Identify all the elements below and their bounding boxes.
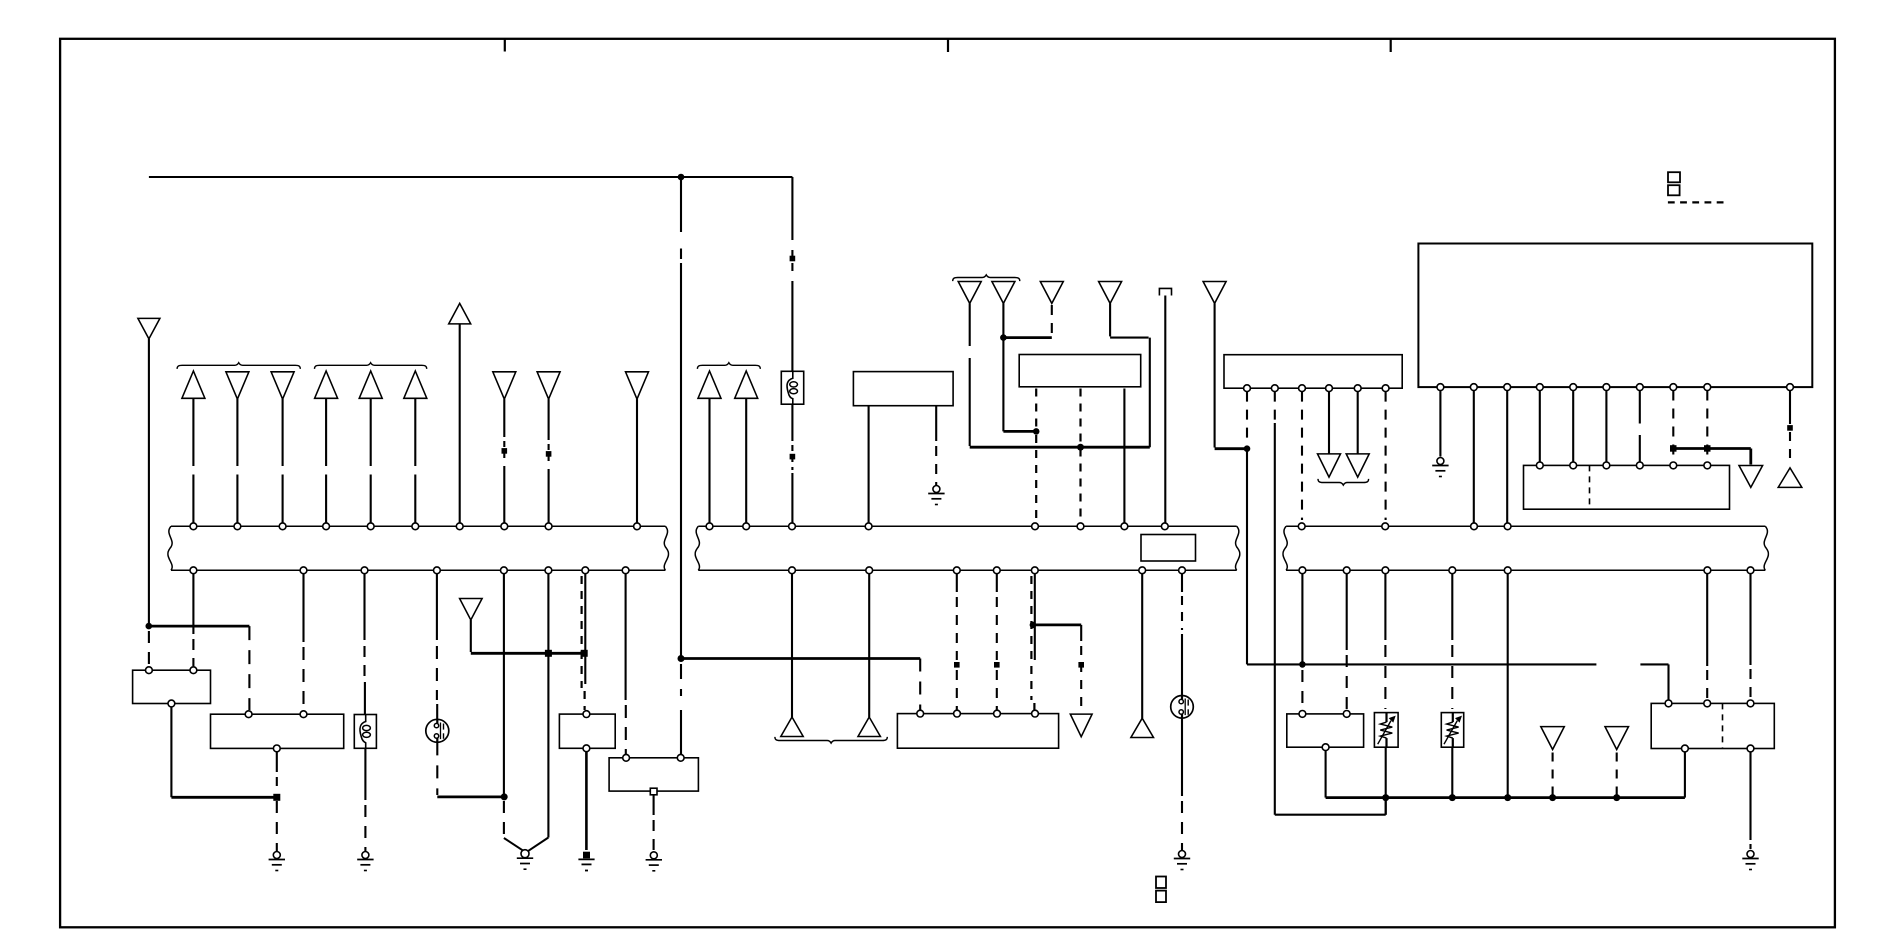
- pin bus B bottom 6: [1139, 567, 1146, 574]
- wire M2 pin1 down: [1246, 449, 1248, 665]
- wire bus A col x504 down: [503, 574, 505, 795]
- pin K1 top 1: [146, 667, 153, 674]
- wire bus C to R1 a: [1384, 574, 1386, 640]
- wire K4 down dash: [653, 820, 655, 852]
- junction N5: [1030, 622, 1037, 629]
- pin bus C top 1: [1298, 523, 1305, 530]
- lamp L2: [1171, 696, 1194, 719]
- wire net N6: [1673, 447, 1751, 450]
- wire U1 p4 down: [1539, 391, 1541, 463]
- wire K6 down dash: [1749, 844, 1751, 849]
- wire C4 corner: [1110, 337, 1149, 339]
- wire bus A to lamp dash: [436, 646, 438, 700]
- pin U2 1: [1536, 462, 1543, 469]
- connector A6 triangle: [404, 371, 427, 398]
- wire drop x792 upper: [791, 177, 793, 240]
- pin U1 6: [1603, 384, 1610, 391]
- brace group 5: [1318, 479, 1369, 485]
- pin K3 top: [583, 711, 590, 718]
- wire bus C to K6 p2 dash: [1706, 670, 1708, 700]
- divider U2 dashed: [1589, 465, 1591, 509]
- connector A4 triangle: [315, 371, 338, 398]
- wire bus C to R2 a: [1451, 574, 1453, 640]
- bus B bottom edge: [698, 569, 1236, 571]
- wire bus A to lamp solid: [436, 574, 438, 640]
- bus A right break: [664, 526, 668, 570]
- wire K3 down: [585, 752, 588, 850]
- brace group 2: [315, 363, 427, 369]
- wire bus C to K5 p2 a: [1346, 574, 1348, 650]
- bus B top edge: [698, 525, 1236, 527]
- wire col x581 dashed: [580, 576, 582, 688]
- ground G7: [1174, 851, 1190, 870]
- wire C5 down: [1214, 303, 1216, 447]
- connector A1 triangle: [182, 371, 205, 398]
- wire col x193 lower: [192, 475, 194, 523]
- wire C2-C3 link: [1003, 336, 1051, 339]
- brace group 6: [775, 737, 887, 743]
- wire branch drop dashed: [248, 626, 250, 710]
- splice S4: [790, 454, 796, 460]
- junction M2 pin1 net: [1033, 428, 1040, 435]
- pin bus A bottom 2: [300, 567, 307, 574]
- wire x504 diagonal: [504, 838, 524, 851]
- connector A2 triangle: [226, 372, 249, 399]
- marker square bottom 1: [1156, 877, 1166, 889]
- pin M2 4: [1326, 385, 1333, 392]
- wire M1 pin2 dash: [935, 446, 937, 485]
- marker square top 1: [1668, 172, 1680, 182]
- fold tick 3: [1390, 39, 1392, 52]
- pin bus A bottom 5: [501, 567, 508, 574]
- wire col x504 a: [503, 399, 505, 437]
- pin U1 1: [1437, 384, 1444, 391]
- connector D3 triangle: [1070, 714, 1092, 737]
- junction N7 a: [1382, 794, 1389, 801]
- wire net N2 a: [1247, 663, 1596, 665]
- wire bus C to R2 dash: [1451, 645, 1453, 709]
- pin bus B top 8: [1161, 523, 1168, 530]
- wire bus C to K6 p3 dash: [1749, 669, 1751, 700]
- wire U1 p3 down: [1506, 391, 1508, 523]
- pin U1 8: [1670, 384, 1677, 391]
- wire K2 down a: [276, 752, 278, 772]
- thermistor R1: [1374, 713, 1398, 748]
- junction U1 p8: [1670, 445, 1677, 452]
- pin M2 6: [1382, 385, 1389, 392]
- junction N7 d: [1549, 794, 1556, 801]
- wire C1 down b: [969, 358, 971, 446]
- wire bus B to D4: [1141, 574, 1143, 718]
- pin bus B top 1: [706, 523, 713, 530]
- pin bus C bottom 2: [1343, 567, 1350, 574]
- wire bus A to K1 solid: [192, 574, 194, 634]
- pin K2 top 1: [245, 711, 252, 718]
- pin M2 1: [1244, 385, 1251, 392]
- wire E4 drop dash: [1616, 753, 1618, 796]
- bus A bottom edge: [171, 569, 665, 571]
- wire bus B to M3p3 dash2: [996, 670, 998, 710]
- ground G2: [357, 852, 373, 871]
- wire M2 pin5 down: [1357, 392, 1359, 454]
- pin K6 top 3: [1747, 700, 1754, 707]
- wire F1 down b: [791, 473, 793, 523]
- ground G1: [269, 852, 285, 871]
- connector C8 triangle: [1346, 454, 1369, 477]
- wire drop x681 lower dashed: [680, 664, 682, 696]
- pin K4 bottom square: [650, 788, 657, 795]
- wire U1 p7 down b: [1639, 435, 1641, 462]
- wire col x415 upper: [414, 399, 416, 466]
- wire thick net N4: [681, 657, 920, 660]
- wire col x548 a: [548, 399, 550, 440]
- wire col x1031 dashed: [1030, 576, 1032, 700]
- pin U1 5: [1570, 384, 1577, 391]
- pin bus C bottom 3: [1382, 567, 1389, 574]
- ground G3: [517, 850, 533, 870]
- wire col x709: [708, 399, 710, 523]
- wire bus B to lamp2 a: [1181, 574, 1183, 592]
- pin bus C top 4: [1504, 523, 1511, 530]
- pin bus B bottom 1: [789, 567, 796, 574]
- box K5: [1287, 714, 1364, 747]
- pin bus C bottom 5: [1504, 567, 1511, 574]
- splice S1: [790, 256, 796, 262]
- wire K6 down: [1749, 752, 1751, 840]
- pin bus A top 8: [501, 523, 508, 530]
- wire col x326 upper: [325, 399, 327, 466]
- wire bus B to D2: [868, 574, 870, 717]
- wire bus C to K5 p2 dash: [1346, 655, 1348, 710]
- wire bus C to R1 dash: [1384, 645, 1386, 709]
- junction C2 branch: [1000, 334, 1007, 341]
- wire bus C to K5 p1 dash: [1301, 670, 1303, 710]
- pin U1 7: [1636, 384, 1643, 391]
- wire bus A to F2 solid: [363, 574, 365, 640]
- wire U1 p1 down: [1439, 391, 1441, 457]
- wire N6 drop: [1749, 449, 1752, 465]
- junction top feed: [678, 174, 685, 181]
- wire N4 drop dash: [919, 659, 921, 711]
- pin U2 6: [1704, 462, 1711, 469]
- pin bus C bottom 6: [1704, 567, 1711, 574]
- wire C2 down: [1002, 303, 1004, 431]
- wire col x370 upper: [370, 399, 372, 466]
- connector C4 triangle: [1099, 282, 1122, 304]
- wire F2 down: [364, 748, 366, 800]
- wire M2 pin2 down: [1274, 423, 1276, 815]
- bus B label box: [1141, 535, 1196, 562]
- ground G8: [1432, 458, 1448, 477]
- wire net N3: [1275, 814, 1386, 816]
- wire bus C to K5 p1 a: [1301, 574, 1303, 664]
- junction U1 p9: [1704, 445, 1711, 452]
- box M3: [897, 714, 1058, 749]
- ground G9: [1742, 851, 1758, 870]
- wire U1 p7 down a: [1639, 391, 1641, 424]
- connector C7 triangle: [1318, 454, 1341, 477]
- wire col x746: [745, 399, 747, 523]
- wire U1 p10 down: [1789, 391, 1791, 425]
- wire lamp2 down: [1181, 718, 1183, 796]
- pin K6 top 2: [1704, 700, 1711, 707]
- box K3: [559, 714, 615, 748]
- pin bus A bottom 6: [545, 567, 552, 574]
- wire drop x792 mid: [791, 281, 793, 372]
- box M4: [1019, 355, 1140, 387]
- wire U1 p2 down: [1473, 391, 1475, 523]
- wire C2 corner: [1003, 430, 1034, 433]
- wire bus A to K2 solid: [302, 574, 304, 642]
- box U1 control unit: [1418, 244, 1812, 388]
- pin K4 top 2: [677, 754, 684, 761]
- wire col x459 drop: [459, 324, 461, 523]
- pin bus A bottom 4: [434, 567, 441, 574]
- pin bus A top 7: [456, 523, 463, 530]
- box U2: [1524, 465, 1730, 509]
- wire U1 p9 dash: [1706, 391, 1708, 463]
- wire lamp corner: [437, 796, 504, 799]
- wire col x193 upper: [192, 399, 194, 466]
- wire N5 drop a: [1080, 625, 1082, 641]
- pin bus C bottom 1: [1299, 567, 1306, 574]
- ground G6: [928, 486, 944, 505]
- wire net N2 b: [1640, 663, 1668, 665]
- wire C6 down: [1164, 296, 1166, 523]
- wire M2 pin1 dash: [1246, 392, 1248, 445]
- wire B1 drop: [470, 620, 472, 652]
- wire E3 drop dash: [1552, 753, 1554, 796]
- wire N5 drop dash: [1080, 646, 1082, 712]
- pin M2 5: [1354, 385, 1361, 392]
- wire col x548 dash: [548, 444, 550, 466]
- pin bus B bottom 4: [993, 567, 1000, 574]
- wire drop x681 to pin: [680, 710, 682, 756]
- bus C top edge: [1286, 525, 1765, 527]
- marker square top 2: [1668, 185, 1680, 195]
- pin bus A top 3: [279, 523, 286, 530]
- wire thick left net: [471, 652, 585, 655]
- connector tall mid triangle: [449, 303, 471, 324]
- wire bus C col x1507 down: [1507, 574, 1509, 798]
- wire bus A to K2 dash: [302, 647, 304, 710]
- wire col x584 dash tail: [583, 691, 585, 710]
- pin U1 9: [1704, 384, 1711, 391]
- box K2: [211, 714, 344, 748]
- wire drop x681 main: [680, 263, 682, 659]
- pin M2 3: [1299, 385, 1306, 392]
- pin bus A top 9: [545, 523, 552, 530]
- pin bus C top 2: [1382, 523, 1389, 530]
- wire bus B to M3p3 a: [996, 574, 998, 592]
- pin bus B bottom 3: [953, 567, 960, 574]
- fold tick 1: [504, 39, 506, 52]
- pin bus B top 3: [789, 523, 796, 530]
- pin bus A top 2: [234, 523, 241, 530]
- box M2: [1224, 355, 1402, 389]
- junction lamp net: [501, 793, 508, 800]
- wire K2 down dash: [276, 777, 278, 793]
- wire M2 pin3 dash: [1301, 392, 1303, 520]
- wire col x326 lower: [325, 475, 327, 523]
- wire M1 pin2 down: [935, 406, 937, 441]
- pin bus B bottom 7: [1179, 567, 1186, 574]
- box K6: [1651, 703, 1774, 748]
- wire bus B to M3p4 solid: [1034, 574, 1036, 660]
- pin bus A top 6: [412, 523, 419, 530]
- wire net N5: [1033, 624, 1081, 627]
- wire x504 below dash: [503, 801, 505, 838]
- wire M1 pin1 down: [868, 406, 870, 523]
- splice S3: [546, 451, 552, 457]
- bus B right break: [1236, 526, 1240, 570]
- pin U2 4: [1636, 462, 1643, 469]
- connector A7 triangle: [493, 372, 516, 399]
- pin U2 5: [1670, 462, 1677, 469]
- box M1: [853, 372, 953, 406]
- connector B2 triangle: [698, 371, 721, 398]
- junction K2 ground: [273, 794, 280, 801]
- pin U1 3: [1504, 384, 1511, 391]
- connector E4 triangle: [1605, 727, 1629, 750]
- connector E3 triangle: [1541, 727, 1565, 750]
- wire bus A to K4: [625, 574, 627, 700]
- pin bus B top 5: [1032, 523, 1039, 530]
- wire drop x681 upper: [680, 177, 682, 232]
- connector tall left triangle: [138, 318, 160, 339]
- wire N1 right riser: [1149, 338, 1151, 448]
- connector C5 triangle: [1203, 282, 1226, 304]
- pin bus A bottom 8: [622, 567, 629, 574]
- wire col x637: [636, 399, 638, 523]
- wire K2 down b: [276, 801, 278, 851]
- pin M3 3: [994, 710, 1001, 717]
- pin bus B top 6: [1077, 523, 1084, 530]
- wire bus C to K6 p3 a: [1749, 574, 1751, 665]
- pin bus A top 5: [367, 523, 374, 530]
- wire M4 pin1 dash b: [1035, 435, 1037, 523]
- divider K6 dashed: [1722, 703, 1724, 748]
- wire M2 pin2 dash: [1274, 392, 1276, 420]
- connector E2 triangle: [1778, 468, 1802, 488]
- box K4: [609, 758, 698, 791]
- wire bus B to lamp2 dash: [1181, 596, 1183, 630]
- bus C bottom edge: [1286, 569, 1765, 571]
- wire bus B to M3p3 dash: [996, 597, 998, 660]
- pin U2 2: [1570, 462, 1577, 469]
- wire col x282 lower: [282, 475, 284, 523]
- wire bus A to F2 b: [364, 682, 366, 715]
- pin K4 top 1: [623, 754, 630, 761]
- ground G4 chassis: [578, 852, 594, 871]
- wire left branch dash: [148, 631, 150, 666]
- connector A5 triangle: [359, 371, 382, 398]
- wire N2 drop: [1667, 664, 1669, 700]
- pin bus B top 4: [865, 523, 872, 530]
- wire bus B to M3p2 dash2: [956, 670, 958, 710]
- wire R1 down: [1385, 747, 1387, 815]
- wire C4 down: [1109, 303, 1111, 336]
- connector E1 triangle: [1739, 466, 1763, 488]
- pin bus A bottom 1: [190, 567, 197, 574]
- bus C left break: [1283, 526, 1287, 570]
- connector A9 triangle: [626, 372, 649, 399]
- wire lamp down dash: [436, 742, 438, 795]
- wire col x415 lower: [414, 475, 416, 523]
- wire F2 down dash: [364, 805, 366, 851]
- wire col x504 dash: [503, 441, 505, 463]
- wire drop x792 dash: [791, 250, 793, 259]
- junction M2 pin1 tap: [1244, 445, 1251, 452]
- pin K2 top 2: [300, 711, 307, 718]
- wire drop x681 dash piece: [680, 249, 682, 260]
- pin K3 bottom: [583, 745, 590, 752]
- wire C5 corner: [1215, 447, 1247, 450]
- wire bus B to D1: [791, 574, 793, 717]
- wire col x1034 dash tail: [1033, 703, 1035, 710]
- wire F1 down a: [791, 404, 793, 441]
- wire bus C to K6 p2 a: [1706, 574, 1708, 666]
- wire bus B to M3p2 a: [956, 574, 958, 592]
- wire M2 pin4 down: [1328, 392, 1330, 454]
- pin bus A bottom 3: [361, 567, 368, 574]
- bus C right break: [1764, 526, 1768, 570]
- pin K6 bottom 1: [1682, 745, 1689, 752]
- wire bus A to lamp b: [436, 704, 438, 720]
- wire lamp2 down dash: [1181, 801, 1183, 850]
- marker square bottom 2: [1156, 891, 1166, 903]
- wire bus A to F2 dash: [363, 646, 365, 678]
- connector B3 triangle: [735, 371, 758, 398]
- wire x548 diagonal: [528, 838, 548, 851]
- wire U1 p10 dash: [1789, 432, 1791, 464]
- wire tall left drop: [148, 339, 150, 625]
- junction x548 thick: [545, 650, 552, 657]
- pin K1 top 2: [190, 667, 197, 674]
- wire col x370 lower: [370, 475, 372, 523]
- ground G5: [646, 852, 662, 871]
- pin bus B bottom 5: [1031, 567, 1038, 574]
- junction left net end: [581, 650, 588, 657]
- pin bus B top 2: [743, 523, 750, 530]
- bus A top edge: [171, 525, 665, 527]
- wire drop x792 dash2: [791, 263, 793, 271]
- brace group 1: [177, 363, 300, 369]
- splice S2: [502, 448, 508, 454]
- wire feed top horizontal: [149, 176, 793, 178]
- fold tick 2: [947, 39, 949, 52]
- dash leader top right: [1668, 201, 1725, 203]
- wire bus B to M3p2 dash: [956, 597, 958, 660]
- junction x681 at branch: [678, 655, 685, 662]
- wire col x237 lower: [236, 475, 238, 523]
- pin U1 10: [1787, 384, 1794, 391]
- pin U1 4: [1536, 384, 1543, 391]
- connector D1 triangle: [781, 717, 803, 737]
- splice S6: [994, 662, 1000, 668]
- wire col x282 upper: [282, 399, 284, 466]
- junction left branch: [146, 623, 153, 630]
- wire U1 p5 down: [1572, 391, 1574, 463]
- wire net N1 horizontal: [970, 446, 1150, 449]
- wire bus A col x548 down: [547, 574, 549, 838]
- pin bus C bottom 4: [1449, 567, 1456, 574]
- junction N7 e: [1613, 794, 1620, 801]
- wire bus A col x585 solid: [584, 574, 586, 684]
- wire bus A to K4 dash: [625, 705, 627, 754]
- wire bus A to K1 dash: [192, 639, 194, 666]
- wire col x548 b: [548, 469, 550, 523]
